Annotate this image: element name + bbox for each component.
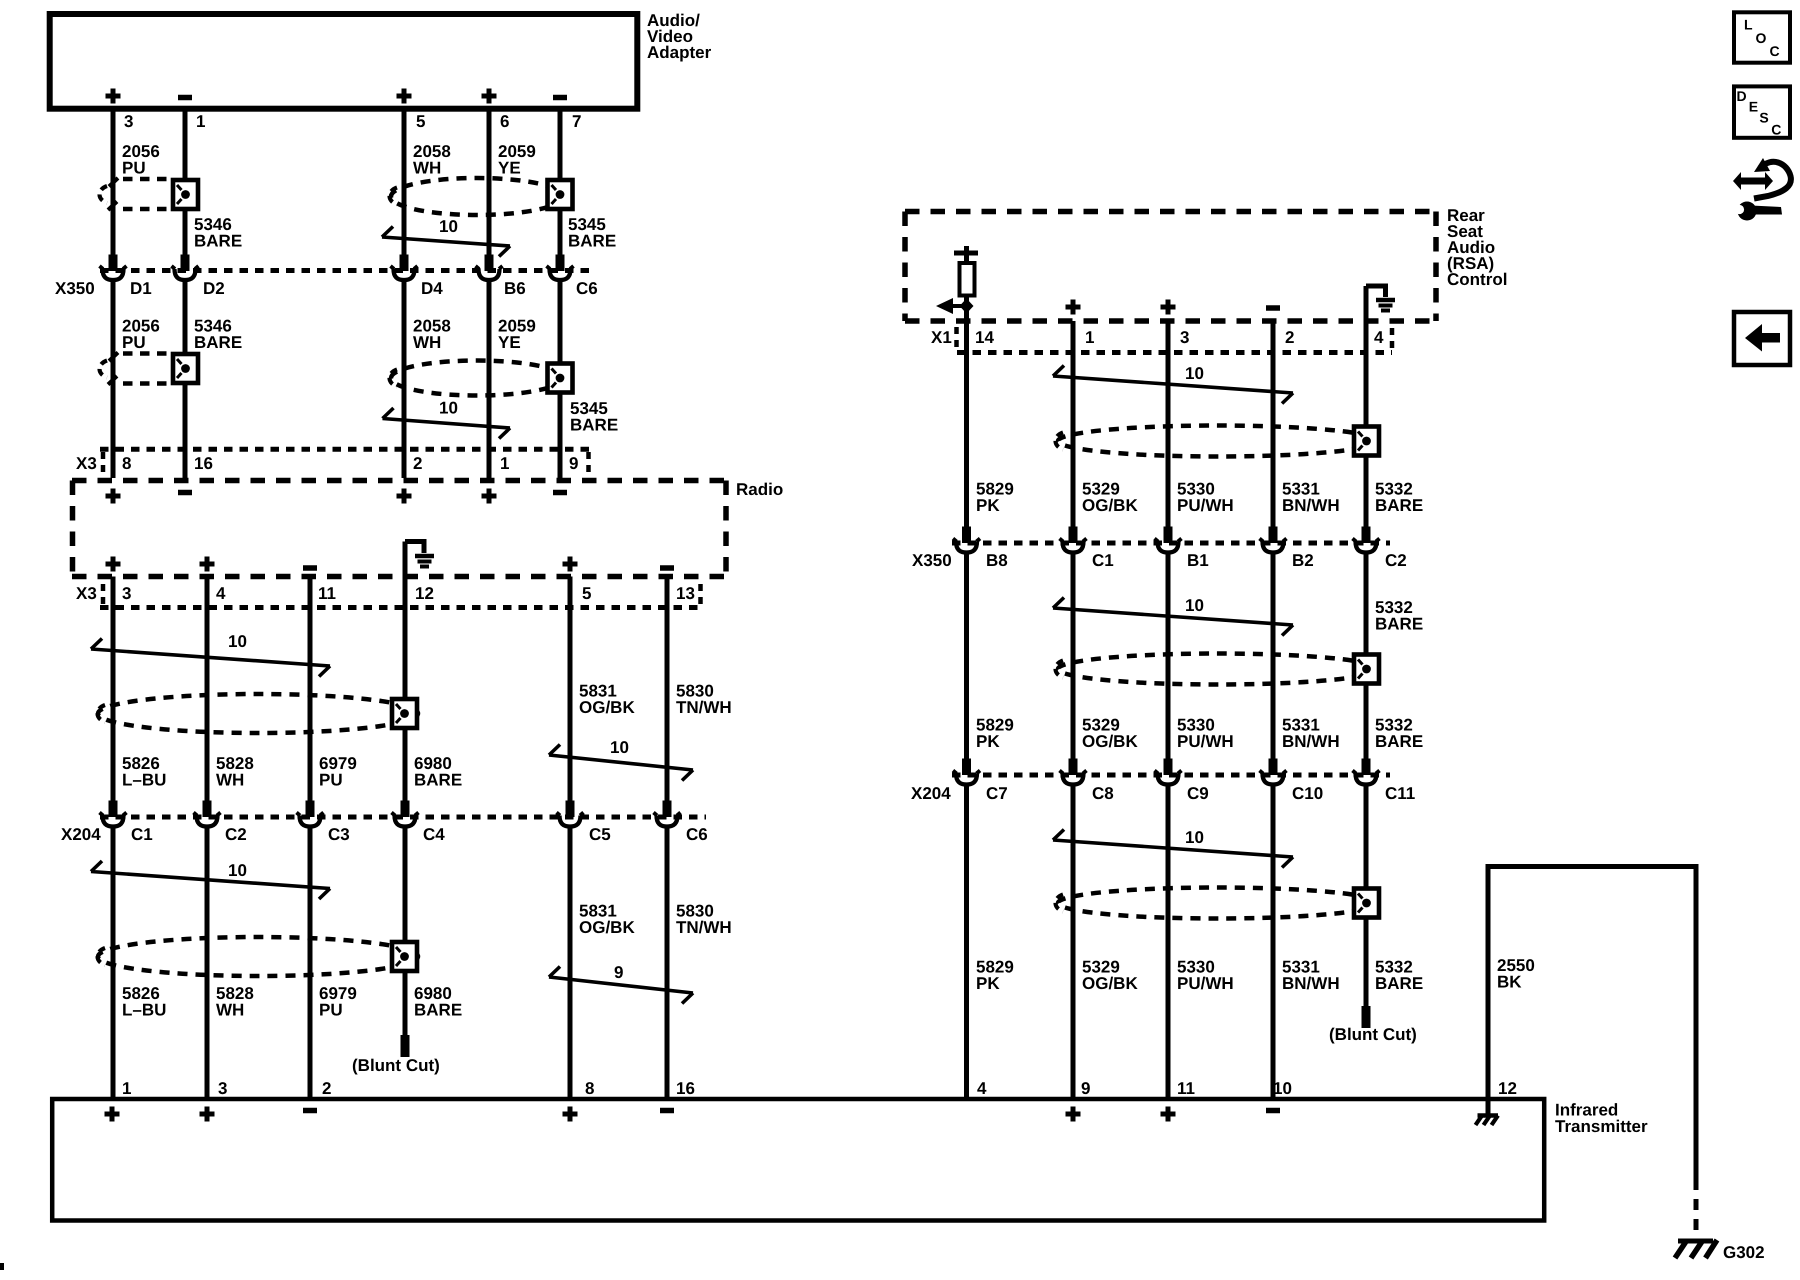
svg-text:16: 16 (676, 1079, 695, 1098)
wire 5830 TN/WH (X204 C6 to IR 16) (665, 829, 670, 1100)
svg-text:1: 1 (122, 1079, 131, 1098)
connector X350 pin B2 (1260, 539, 1287, 553)
svg-text:C5: C5 (589, 825, 611, 844)
pin 2 X1 (1285, 328, 1294, 347)
wire stub X3-8 to Radio (111, 451, 116, 478)
svg-text:S: S (1759, 109, 1768, 125)
shield splice box on 5346 (173, 180, 198, 209)
svg-text:Control: Control (1447, 270, 1507, 289)
svg-text:10: 10 (439, 399, 458, 418)
shield splice box right row1 on 5332 (1354, 427, 1379, 456)
polarity - IR pin 16 (660, 1108, 674, 1114)
svg-text:TN/WH: TN/WH (676, 698, 732, 717)
wire stub RSA3 to X1 (1166, 321, 1171, 354)
polarity + Radio pin 2 (397, 489, 412, 504)
polarity + A/V pin 5 (397, 89, 412, 104)
svg-text:2: 2 (413, 454, 422, 473)
svg-text:C8: C8 (1092, 784, 1114, 803)
svg-text:10: 10 (1273, 1079, 1292, 1098)
svg-text:10: 10 (1185, 596, 1204, 615)
svg-text:5: 5 (582, 584, 591, 603)
label C4 (423, 825, 445, 844)
pin 8 X3 (122, 454, 131, 473)
connector X3 bracket left row2 (101, 584, 106, 605)
label 5332 BARE below X350 (1375, 598, 1423, 634)
icon back arrow box (1734, 312, 1790, 365)
label X204 right (911, 784, 951, 803)
shield ellipse (5826 group) (98, 694, 419, 733)
polarity + Radio pin 5 (563, 557, 578, 572)
svg-text:O: O (1756, 30, 1767, 46)
label 2056 PU lower (122, 317, 160, 353)
label 5332 BARE row3 (1375, 958, 1423, 994)
shield ellipse right row3 (1056, 888, 1379, 919)
polarity - A/V pin 1 (178, 95, 192, 101)
connector X350 left dashed line (100, 268, 591, 273)
svg-text:X350: X350 (912, 551, 952, 570)
svg-text:10: 10 (1185, 364, 1204, 383)
pin 14 X1 (975, 328, 994, 347)
connector X204 pin C10 (1260, 771, 1287, 785)
wire 5345 BARE (X350 C6 to X3 9) (558, 282, 563, 451)
svg-text:6: 6 (500, 112, 509, 131)
shield splice box row2 on 5346 (173, 354, 198, 383)
shield ellipse row2 (2058/2059/5345) (390, 361, 564, 396)
wire 5332 BARE (X350 C2 to X204 C11) (1362, 555, 1371, 776)
wire 5829 PK (X1 14 to X350 B8) (962, 352, 971, 543)
svg-text:C1: C1 (1092, 551, 1114, 570)
svg-text:8: 8 (585, 1079, 594, 1098)
polarity - Radio pin 16 (178, 490, 192, 496)
svg-text:OG/BK: OG/BK (579, 698, 635, 717)
label 5332 BARE row2 (1375, 716, 1423, 752)
label 5830 TN/WH lower (676, 902, 732, 938)
wire 5829 PK (X204 C7 to IR 4) (964, 787, 969, 1100)
svg-text:PU: PU (122, 333, 146, 352)
wire 5329 OG/BK (X1 1 to X350 C1) (1069, 352, 1078, 543)
label X3 row1 (76, 454, 97, 473)
svg-text:10: 10 (228, 632, 247, 651)
polarity - A/V pin 7 (553, 95, 567, 101)
label X1 (931, 328, 952, 347)
label 5332 BARE (1375, 480, 1423, 516)
svg-text:X350: X350 (55, 279, 95, 298)
label 5830 TN/WH (676, 682, 732, 718)
connector X204 pin C6 (654, 813, 681, 827)
svg-text:X204: X204 (61, 825, 101, 844)
connector X3 row2 dashed line (100, 605, 703, 610)
connector X350 pin B1 (1155, 539, 1182, 553)
label B6 (504, 279, 526, 298)
wire 5831 OG/BK (X204 C5 to IR 8) (568, 829, 573, 1100)
label 6980 BARE lower (414, 984, 462, 1020)
shield pair drain capsule (2056/5346) (100, 178, 172, 210)
twisted pair arrow 10 (5831/5830) (549, 738, 693, 781)
label 5329 OG/BK (1082, 480, 1138, 516)
label 2058 WH lower (413, 317, 451, 353)
shield ellipse right row1 (1056, 426, 1379, 457)
wire 5826 L-BU (Radio 3 to X204 C1) (109, 577, 118, 818)
wire 5828 WH (X204 C2 to IR 3) (205, 829, 210, 1100)
wire 5830 TN/WH (Radio 13 to X204 C6) (663, 577, 672, 818)
wire stub X3-1 to Radio (487, 451, 492, 478)
label C10 (1292, 784, 1323, 803)
twisted pair arrow 10 (5826/5828/6979) (91, 632, 330, 677)
svg-text:3: 3 (124, 112, 133, 131)
label 6980 BARE (414, 754, 462, 790)
svg-text:9: 9 (614, 963, 623, 982)
label C2 (225, 825, 247, 844)
wire 6979 PU (Radio 11 to X204 C3) (306, 577, 315, 818)
shield pair drain capsule row2 (2056/5346) (100, 353, 172, 385)
label 5330 PU/WH (1177, 480, 1234, 516)
svg-text:C1: C1 (131, 825, 153, 844)
shield splice box row2 on 5345 (548, 364, 573, 393)
wire 2059 YE (X350 B6 to X3 1) (487, 282, 492, 451)
connector X3 bracket right row1 (586, 452, 591, 475)
connector X350 pin D4 (391, 266, 418, 280)
shield ellipse lower (5826 group) (98, 937, 419, 976)
pin 9 IR (1081, 1079, 1090, 1098)
polarity + RSA pin 1 (1066, 300, 1081, 315)
svg-text:PK: PK (976, 732, 1000, 751)
pin 4 IR (977, 1079, 987, 1098)
svg-text:OG/BK: OG/BK (1082, 732, 1138, 751)
polarity + Radio pin 4 (200, 557, 215, 572)
wire 5332 BARE (X204 C11 to blunt cut) (1362, 787, 1371, 1029)
connector X204 right dashed line (952, 773, 1390, 778)
label 5345 BARE row2 (570, 399, 618, 435)
svg-text:D2: D2 (203, 279, 225, 298)
label 5826 L-BU lower (122, 984, 166, 1020)
svg-text:C4: C4 (423, 825, 445, 844)
connector X350 pin B6 (476, 266, 503, 280)
connector X204 pin C11 (1353, 771, 1380, 785)
svg-text:C11: C11 (1385, 784, 1415, 803)
label 6979 PU (319, 754, 357, 790)
label B8 (986, 551, 1008, 570)
label Rear Seat Audio (RSA) Control (1447, 206, 1507, 289)
page corner mark (0, 1263, 4, 1270)
svg-text:B6: B6 (504, 279, 526, 298)
label Infrared Transmitter (1555, 1101, 1648, 1137)
pin 1 IR (122, 1079, 131, 1098)
component Infrared Transmitter box (52, 1099, 1544, 1221)
shield splice box on 6980 (392, 699, 417, 728)
label G302 (1723, 1243, 1765, 1262)
svg-text:9: 9 (569, 454, 578, 473)
polarity - Radio pin 9 (553, 490, 567, 496)
shield ellipse right row2 (1056, 654, 1379, 685)
label D1 (130, 279, 152, 298)
connector X350 pin C1 right (1060, 539, 1087, 553)
polarity - IR pin 2 (303, 1108, 317, 1114)
pin 1 X1 (1085, 328, 1094, 347)
svg-text:PU: PU (319, 771, 343, 790)
icon LOC box (1734, 12, 1790, 62)
polarity - RSA pin 2 (1266, 305, 1280, 311)
pin 3 X1 (1180, 328, 1189, 347)
connector X350 pin D1 (100, 266, 127, 280)
pin 3 A/V (124, 112, 133, 131)
pin 4 X3 row2 (216, 584, 226, 603)
pin 12 X3 row2 (415, 584, 434, 603)
chassis ground inside IR pin 12 (1476, 1099, 1499, 1125)
label 5331 BN/WH row2 (1282, 716, 1340, 752)
svg-text:BARE: BARE (194, 333, 242, 352)
connector X350 pin B8 (953, 539, 980, 553)
svg-text:1: 1 (1085, 328, 1094, 347)
pin 1 X3 (500, 454, 509, 473)
connector X204 pin C2 (194, 813, 221, 827)
connector X204 pin C4 (392, 813, 419, 827)
svg-text:1: 1 (196, 112, 205, 131)
wire 5332 BARE (X1 4 to X350 C2) (1362, 352, 1371, 543)
connector X3 row1 dashed line (100, 447, 591, 452)
wire 5330 PU/WH (X1 3 to X350 B1) (1164, 352, 1173, 543)
svg-text:PU: PU (319, 1001, 343, 1020)
polarity + IR pin 8 (563, 1107, 578, 1122)
label C9 (1187, 784, 1209, 803)
polarity - Radio pin 13 (660, 565, 674, 571)
svg-text:BN/WH: BN/WH (1282, 496, 1340, 515)
svg-text:Adapter: Adapter (647, 43, 712, 62)
svg-text:WH: WH (216, 771, 244, 790)
svg-text:3: 3 (1180, 328, 1189, 347)
svg-text:BARE: BARE (414, 1001, 462, 1020)
potentiometer feed + inside RSA (954, 246, 978, 261)
svg-text:2: 2 (322, 1079, 331, 1098)
svg-text:11: 11 (1177, 1079, 1195, 1098)
svg-text:16: 16 (194, 454, 213, 473)
label C8 (1092, 784, 1114, 803)
svg-text:TN/WH: TN/WH (676, 918, 732, 937)
twisted pair arrow 10 right row1 (1053, 364, 1293, 404)
svg-text:12: 12 (1498, 1079, 1517, 1098)
label Audio/Video Adapter (647, 11, 712, 62)
label X350 right (912, 551, 952, 570)
connector X350 right dashed line (952, 541, 1390, 546)
wire 2058 WH (A/V 5 to X350 D4) (400, 111, 409, 271)
wire 5346 BARE (X350 D2 to X3 16) (183, 282, 188, 451)
svg-text:3: 3 (122, 584, 131, 603)
polarity + Radio pin 3 (106, 557, 121, 572)
svg-text:OG/BK: OG/BK (579, 918, 635, 937)
label C3 (328, 825, 350, 844)
wire 6980 BARE (X204 C4 to blunt cut) (401, 829, 410, 1058)
svg-text:PK: PK (976, 496, 1000, 515)
wire stub RSA2 to X1 (1271, 321, 1276, 354)
svg-text:WH: WH (216, 1001, 244, 1020)
svg-text:(Blunt Cut): (Blunt Cut) (1329, 1025, 1417, 1044)
twisted pair arrow 9 (5831/5830) (549, 963, 693, 1004)
wire 5329 OG/BK (X204 C8 to IR 9) (1071, 787, 1076, 1100)
svg-text:PU/WH: PU/WH (1177, 974, 1234, 993)
polarity + RSA pin 3 (1161, 300, 1176, 315)
svg-text:10: 10 (610, 738, 629, 757)
pin 12 IR (1498, 1079, 1517, 1098)
connector X3 bracket right row2 (698, 584, 703, 605)
wire stub RSA1 to X1 (1071, 321, 1076, 354)
svg-text:4: 4 (216, 584, 226, 603)
svg-text:YE: YE (498, 333, 521, 352)
pin 2 X3 (413, 454, 422, 473)
svg-text:L–BU: L–BU (122, 771, 166, 790)
shield ellipse (2058/2059/5345) (390, 178, 564, 215)
component Rear Seat Audio (RSA) Control dashed box (905, 212, 1436, 322)
svg-text:B2: B2 (1292, 551, 1314, 570)
svg-text:X3: X3 (76, 584, 97, 603)
svg-text:BN/WH: BN/WH (1282, 974, 1340, 993)
label C1 (131, 825, 153, 844)
polarity + A/V pin 6 (482, 89, 497, 104)
ground symbol inside RSA pin 4 (1366, 286, 1395, 321)
icon DESC box (1734, 86, 1790, 137)
connector X204 pin C7 (953, 771, 980, 785)
twisted pair arrow 10 row2 (2058/2059) (383, 399, 511, 439)
pin 5 X3 row2 (582, 584, 591, 603)
svg-text:PU: PU (122, 159, 146, 178)
svg-text:10: 10 (228, 861, 247, 880)
svg-text:14: 14 (975, 328, 994, 347)
shield splice box on 5345 (548, 180, 573, 209)
pin 5 A/V (416, 112, 425, 131)
label C11 (1385, 784, 1415, 803)
svg-text:1: 1 (500, 454, 509, 473)
connector X204 left dashed line (100, 815, 706, 820)
svg-text:BARE: BARE (1375, 496, 1423, 515)
svg-text:C2: C2 (225, 825, 247, 844)
svg-text:B1: B1 (1187, 551, 1209, 570)
label X350 left (55, 279, 95, 298)
connector X1 bracket left (954, 327, 959, 349)
svg-text:BARE: BARE (1375, 974, 1423, 993)
label 2058 WH (413, 142, 451, 178)
svg-text:Radio: Radio (736, 480, 783, 499)
svg-text:13: 13 (676, 584, 695, 603)
svg-text:7: 7 (572, 112, 581, 131)
svg-text:WH: WH (413, 159, 441, 178)
pin 11 X3 row2 (318, 584, 336, 603)
svg-text:10: 10 (1185, 828, 1204, 847)
svg-text:BK: BK (1497, 973, 1522, 992)
wire stub X3-9 to Radio (558, 451, 563, 478)
connector X204 pin C1 (100, 813, 127, 827)
label 2059 YE (498, 142, 536, 178)
svg-text:8: 8 (122, 454, 131, 473)
svg-text:G302: G302 (1723, 1243, 1765, 1262)
pin 4 X1 (1374, 328, 1384, 347)
svg-text:X204: X204 (911, 784, 951, 803)
label X3 row2 (76, 584, 97, 603)
twisted pair arrow 10 lower (5826 group) (91, 861, 330, 899)
connector X204 pin C3 (297, 813, 324, 827)
pin 9 X3 (569, 454, 578, 473)
svg-text:PU/WH: PU/WH (1177, 732, 1234, 751)
twisted pair arrow 10 (2058/2059) (382, 217, 510, 257)
label D2 (203, 279, 225, 298)
wire stub RSA4 to X1 (1364, 321, 1369, 354)
pin 3 X3 row2 (122, 584, 131, 603)
label (Blunt Cut) left (352, 1056, 440, 1075)
svg-text:C7: C7 (986, 784, 1008, 803)
label 5346 BARE (194, 215, 242, 251)
label C1 right (1092, 551, 1114, 570)
polarity + IR pin 11 (1161, 1107, 1176, 1122)
pin 8 IR (585, 1079, 594, 1098)
wire stub X3-2 to Radio (402, 451, 407, 478)
wire 5329 OG/BK (X350 C1 to X204 C8) (1069, 555, 1078, 776)
svg-text:5: 5 (416, 112, 425, 131)
twisted pair arrow 10 right row3 (1053, 828, 1293, 868)
label 5829 PK row2 (976, 716, 1014, 752)
svg-text:D: D (1737, 88, 1747, 104)
wire 5330 PU/WH (X350 B1 to X204 C9) (1164, 555, 1173, 776)
svg-text:9: 9 (1081, 1079, 1090, 1098)
wire 6980 BARE (Radio 12 to X204 C4) (401, 542, 410, 818)
connector X204 pin C9 (1155, 771, 1182, 785)
label Radio (736, 480, 783, 499)
shield splice box lower on 6980 (392, 942, 417, 971)
wire 5826 L-BU (X204 C1 to IR 1) (111, 829, 116, 1100)
label C6 (686, 825, 708, 844)
pin 16 IR (676, 1079, 695, 1098)
wire 5828 WH (Radio 4 to X204 C2) (203, 577, 212, 818)
wire 5829 PK (X350 B8 to X204 C7) (962, 555, 971, 776)
label 5329 OG/BK row3 (1082, 958, 1138, 994)
connector X204 pin C8 (1060, 771, 1087, 785)
twisted pair arrow 10 right row2 (1053, 596, 1293, 636)
svg-text:BARE: BARE (570, 416, 618, 435)
polarity + Radio pin 8 (106, 489, 121, 504)
svg-text:PK: PK (976, 974, 1000, 993)
svg-text:PU/WH: PU/WH (1177, 496, 1234, 515)
svg-text:10: 10 (439, 217, 458, 236)
label 5346 BARE lower (194, 317, 242, 353)
wire 5331 BN/WH (X1 2 to X350 B2) (1269, 352, 1278, 543)
wiper arrow inside RSA (936, 296, 974, 322)
wire 2058 WH (X350 D4 to X3 2) (402, 282, 407, 451)
label 5826 L-BU (122, 754, 166, 790)
svg-text:BARE: BARE (568, 232, 616, 251)
svg-text:C3: C3 (328, 825, 350, 844)
label C5 (589, 825, 611, 844)
wire 5331 BN/WH (X204 C10 to IR 10) (1271, 787, 1276, 1100)
connector X3 bracket left row1 (101, 452, 106, 475)
wire 5330 PU/WH (X204 C9 to IR 11) (1166, 787, 1171, 1100)
svg-text:D1: D1 (130, 279, 152, 298)
svg-text:D4: D4 (421, 279, 443, 298)
svg-text:(Blunt Cut): (Blunt Cut) (352, 1056, 440, 1075)
pin 13 X3 row2 (676, 584, 695, 603)
svg-text:2: 2 (1285, 328, 1294, 347)
svg-text:C6: C6 (576, 279, 598, 298)
wire 5331 BN/WH (X350 B2 to X204 C10) (1269, 555, 1278, 776)
label D4 (421, 279, 443, 298)
svg-text:C: C (1770, 43, 1780, 59)
svg-text:C10: C10 (1292, 784, 1323, 803)
wire 2056 PU (X350 D1 to X3 8) (111, 282, 116, 451)
svg-text:3: 3 (218, 1079, 227, 1098)
pin 10 IR (1273, 1079, 1292, 1098)
svg-text:BARE: BARE (414, 771, 462, 790)
connector X350 pin D2 (172, 266, 199, 280)
connector X350 pin C2 (1353, 539, 1380, 553)
svg-text:BARE: BARE (1375, 732, 1423, 751)
svg-text:OG/BK: OG/BK (1082, 974, 1138, 993)
polarity + IR pin 9 (1066, 1107, 1081, 1122)
svg-text:X3: X3 (76, 454, 97, 473)
